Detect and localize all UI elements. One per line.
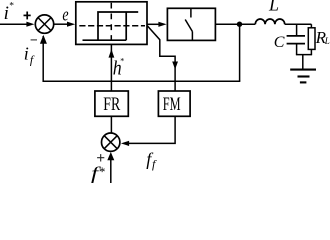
resistor RL xyxy=(310,24,312,28)
svg-text:i: i xyxy=(4,3,9,24)
block FR xyxy=(95,91,128,116)
svg-text:*: * xyxy=(120,57,124,66)
wire FM to junction 2 (ff) xyxy=(129,116,175,143)
plus sign (summing junction 1) xyxy=(24,14,31,16)
svg-text:FR: FR xyxy=(103,94,120,115)
wire node down (if feedback) xyxy=(239,24,241,81)
capacitor C xyxy=(296,24,298,35)
wire comparator to switch xyxy=(147,23,160,25)
wire FR to junction 2 xyxy=(110,116,112,133)
svg-text:L: L xyxy=(324,36,330,46)
wire L to RL corner xyxy=(285,23,312,25)
svg-text:*: * xyxy=(99,164,106,179)
comparator vertical dashed axis xyxy=(110,3,112,44)
switch bottom contact xyxy=(191,32,193,41)
block FM xyxy=(158,91,190,116)
plus sign (summing junction 2) xyxy=(97,157,104,159)
svg-text:i: i xyxy=(24,44,29,64)
svg-text:C: C xyxy=(274,34,285,51)
hysteresis comparator block xyxy=(76,2,147,45)
comparator horizontal dashed axis xyxy=(79,25,145,27)
wire switch to L xyxy=(215,23,255,25)
bottom rail C/RL xyxy=(296,54,312,56)
tap wire (comparator output to FM) xyxy=(147,26,175,91)
wire input i* xyxy=(0,23,28,25)
wire if feedback up to junction 1 xyxy=(42,36,44,82)
inductor L xyxy=(255,19,284,24)
hysteresis loop xyxy=(83,12,139,40)
wire f* input xyxy=(110,158,112,183)
ground xyxy=(302,55,304,70)
svg-text:e: e xyxy=(62,4,68,25)
switch blade xyxy=(185,20,192,32)
switch block xyxy=(167,8,215,40)
summing junction 2 xyxy=(102,133,120,151)
svg-text:L: L xyxy=(268,0,279,15)
svg-text:FM: FM xyxy=(163,94,181,115)
switch top contact xyxy=(190,8,192,17)
minus sign (summing junction 1) xyxy=(31,39,37,41)
wire h* (FR to comparator) xyxy=(110,44,112,91)
wire e (junction 1 to comparator) xyxy=(54,23,68,25)
wire if feedback horizontal xyxy=(43,80,241,82)
summing junction 1 xyxy=(35,15,53,33)
svg-text:*: * xyxy=(9,2,14,12)
node (output) xyxy=(237,22,242,27)
